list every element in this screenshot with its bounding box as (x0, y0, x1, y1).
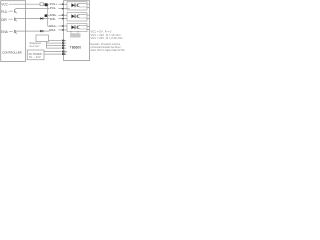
svg-text:ENA: ENA (1, 30, 8, 34)
svg-text:CONTROLLER: CONTROLLER (2, 51, 22, 55)
svg-text:DIR: DIR (1, 18, 7, 22)
svg-text:DC-: DC- (62, 53, 67, 56)
svg-text:ENA-: ENA- (49, 28, 56, 32)
svg-text:PUL-: PUL- (50, 6, 57, 10)
svg-text:9V ~ 42V: 9V ~ 42V (29, 56, 41, 59)
svg-text:when VCC is higher than 5V DC: when VCC is higher than 5V DC . (91, 49, 127, 52)
svg-text:VCC = 5V , R = 0: VCC = 5V , R = 0 (91, 29, 112, 33)
svg-text:TB6600: TB6600 (70, 45, 81, 49)
svg-text:VCC: VCC (1, 2, 8, 6)
svg-text:DIR-: DIR- (50, 17, 56, 21)
svg-text:PUL: PUL (1, 10, 7, 14)
svg-text:VCC = 24V , R = 2.4K ohm: VCC = 24V , R = 2.4K ohm (91, 36, 124, 40)
svg-text:motor: motor (29, 44, 40, 48)
